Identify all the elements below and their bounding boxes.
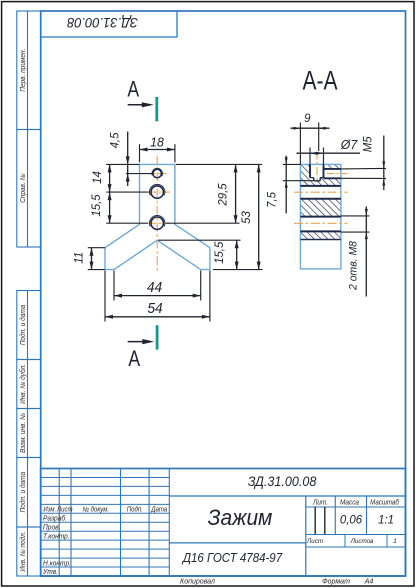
svg-text:Справ. №: Справ. № xyxy=(20,173,27,202)
section hatch regions xyxy=(300,164,310,186)
svg-text:Разраб.: Разраб. xyxy=(43,514,67,522)
svg-text:Зажим: Зажим xyxy=(208,506,273,531)
svg-text:Н.контр.: Н.контр. xyxy=(43,560,71,567)
svg-text:Д16 ГОСТ 4784-97: Д16 ГОСТ 4784-97 xyxy=(181,550,283,565)
svg-text:Утв.: Утв. xyxy=(42,569,58,576)
centerline hole2 xyxy=(148,191,170,193)
centerline hole3 xyxy=(148,222,170,224)
svg-text:ЗД.31.00.08: ЗД.31.00.08 xyxy=(67,15,138,30)
dim 14 and 15.5 left xyxy=(106,163,139,165)
dim 18 xyxy=(139,144,141,162)
svg-text:Лист: Лист xyxy=(306,538,324,545)
svg-text:Подп. и дата: Подп. и дата xyxy=(19,304,27,345)
svg-text:М5: М5 xyxy=(361,136,374,152)
dim 9 xyxy=(299,123,301,165)
title block left table xyxy=(58,469,60,577)
svg-text:Формат: Формат xyxy=(322,576,350,585)
svg-text:Лист: Лист xyxy=(56,506,73,513)
dim 15.5 right xyxy=(158,239,240,241)
dim diameter 7 xyxy=(309,148,311,165)
svg-text:9: 9 xyxy=(304,112,311,125)
svg-text:7,5: 7,5 xyxy=(265,192,278,208)
svg-text:Дата: Дата xyxy=(150,506,167,513)
section outline xyxy=(300,164,341,269)
svg-text:Лит.: Лит. xyxy=(312,499,328,506)
svg-text:0,06: 0,06 xyxy=(340,513,363,526)
centerline vertical axis xyxy=(156,156,158,271)
svg-text:53: 53 xyxy=(240,211,253,224)
svg-text:Изм.: Изм. xyxy=(43,506,56,513)
svg-text:Подп.: Подп. xyxy=(127,505,143,513)
hole3 M8 xyxy=(151,217,163,229)
svg-text:А: А xyxy=(127,78,139,102)
svg-text:ЗД.31.00.08: ЗД.31.00.08 xyxy=(248,474,317,490)
svg-text:Взам. инв. №: Взам. инв. № xyxy=(20,413,27,453)
dim 2 otv M8 xyxy=(341,215,370,217)
dim 44 xyxy=(113,271,115,301)
svg-text:А4: А4 xyxy=(364,576,374,585)
svg-text:Инв. № подл.: Инв. № подл. xyxy=(19,531,27,571)
dim M5 xyxy=(341,167,386,170)
dim 7.5 xyxy=(283,163,301,165)
dim 11 xyxy=(88,247,105,249)
svg-text:1: 1 xyxy=(393,538,397,545)
svg-text:44: 44 xyxy=(147,279,162,296)
svg-text:Пров.: Пров. xyxy=(43,524,61,531)
svg-text:15,5: 15,5 xyxy=(90,194,103,217)
title block outer xyxy=(41,469,406,577)
dim 54 xyxy=(104,271,106,322)
title block right part xyxy=(169,495,405,497)
svg-text:Перв. примен.: Перв. примен. xyxy=(20,49,27,92)
svg-text:Масса: Масса xyxy=(340,499,359,506)
svg-text:Листов: Листов xyxy=(350,538,374,545)
svg-text:Подп. и дата: Подп. и дата xyxy=(19,472,27,513)
svg-text:54: 54 xyxy=(147,300,162,317)
svg-text:А: А xyxy=(128,347,140,371)
front view outline xyxy=(105,164,210,269)
svg-text:11: 11 xyxy=(72,252,85,264)
dim 4.5 xyxy=(126,173,152,175)
svg-text:2 отв. М8: 2 отв. М8 xyxy=(347,241,359,291)
section inner edges xyxy=(309,164,311,177)
svg-text:14: 14 xyxy=(91,171,104,184)
hole1 M5 xyxy=(153,169,161,177)
dim 29.5 xyxy=(176,163,262,165)
svg-text:29,5: 29,5 xyxy=(216,183,229,207)
svg-text:Инв. № дубл.: Инв. № дубл. xyxy=(19,364,27,404)
hole2 M8 xyxy=(151,186,163,198)
svg-text:1:1: 1:1 xyxy=(378,513,394,526)
section mark bottom xyxy=(156,325,159,349)
svg-text:18: 18 xyxy=(150,135,164,149)
svg-text:Ø7: Ø7 xyxy=(340,138,358,152)
designation box top xyxy=(41,11,177,37)
svg-text:4,5: 4,5 xyxy=(108,132,121,148)
left strip boxes xyxy=(17,11,41,130)
svg-text:Масштаб: Масштаб xyxy=(370,498,399,506)
svg-text:Т.контр.: Т.контр. xyxy=(43,533,70,540)
section centerlines xyxy=(316,152,318,182)
svg-text:А-А: А-А xyxy=(302,66,338,96)
svg-text:15,5: 15,5 xyxy=(213,241,226,264)
svg-text:№ докум.: № докум. xyxy=(82,505,109,513)
section mark top xyxy=(155,97,158,121)
svg-text:Копировал: Копировал xyxy=(180,576,215,585)
dim 53 xyxy=(213,269,263,271)
centerline hole1 xyxy=(149,173,167,175)
